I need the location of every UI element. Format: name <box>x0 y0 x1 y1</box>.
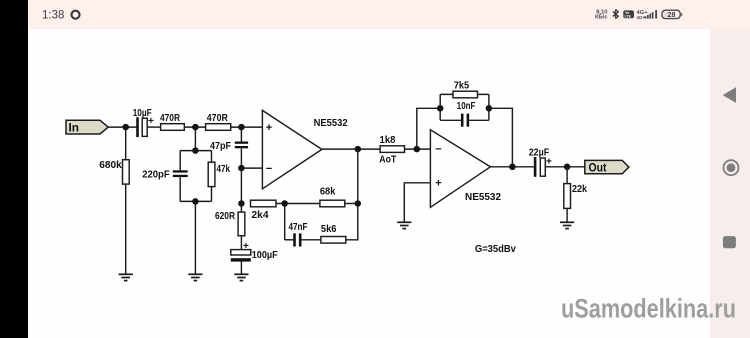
svg-text:−: − <box>435 144 441 156</box>
node C (RC shunt top) <box>192 147 199 154</box>
svg-text:7k5: 7k5 <box>454 79 470 91</box>
resistor 680k <box>99 159 129 184</box>
wire 68k right to node I <box>345 203 358 205</box>
wire 220pF bottom lead <box>179 177 181 201</box>
node M (feedback right) <box>486 105 493 112</box>
svg-text:AoT: AoT <box>379 153 396 165</box>
op-amp U2 NE5532 <box>430 130 501 208</box>
right nav strip background <box>710 0 750 338</box>
svg-text:4G+: 4G+ <box>637 15 646 20</box>
capacitor 22uF electrolytic <box>529 147 552 177</box>
node H (68k left) <box>281 200 288 207</box>
svg-text:NE5532: NE5532 <box>314 117 348 129</box>
wire feedback left risers <box>440 94 461 120</box>
wire 470R to 470R <box>184 126 205 128</box>
wire node K up to feedback <box>417 108 440 149</box>
wire 470R to op-amp + <box>231 126 263 128</box>
wire 47k bottom lead <box>211 187 213 202</box>
svg-text:28: 28 <box>668 10 676 19</box>
svg-text:LTE: LTE <box>625 15 632 19</box>
ground (U2 +) <box>397 222 411 228</box>
svg-text:1k8: 1k8 <box>380 134 396 146</box>
data rate 8,10 KB/s <box>595 9 608 20</box>
wire 100uF to ground <box>240 262 242 274</box>
svg-text:2k4: 2k4 <box>252 209 269 221</box>
node B (between 470R resistors) <box>192 124 199 131</box>
node E (+input / 47pF top) <box>238 124 245 131</box>
wire 47k top lead <box>211 151 213 163</box>
node D (RC shunt bottom) <box>192 198 199 205</box>
svg-text:680k: 680k <box>99 159 122 171</box>
svg-text:Out: Out <box>589 160 607 174</box>
wire In to 10uF <box>108 126 137 128</box>
connector In tag <box>66 120 108 134</box>
connector Out tag <box>585 160 629 174</box>
svg-text:220pF: 220pF <box>142 168 170 180</box>
ground (22k) <box>560 222 574 228</box>
resistor 470R (first) <box>160 112 184 131</box>
node G (620R / 2k4 junction) <box>238 200 245 207</box>
NAVBAR (right) <box>723 87 739 248</box>
node L (feedback left) <box>437 105 444 112</box>
resistor 620R <box>215 210 245 236</box>
signal bars <box>645 10 658 19</box>
svg-text:NE5532: NE5532 <box>465 191 501 203</box>
wire 220pF top lead <box>179 151 181 171</box>
svg-text:1:38: 1:38 <box>42 10 64 22</box>
VoLTE badge <box>623 10 634 18</box>
resistor 22k <box>564 183 587 208</box>
wire 620R to 100uF <box>240 236 242 250</box>
STATUSBAR <box>42 9 682 21</box>
capacitor 10nF <box>457 100 476 127</box>
wire 47pF to -input node <box>240 148 242 168</box>
wire to 47nF <box>285 239 294 241</box>
wire node F down to node G <box>240 168 242 212</box>
capacitor 220pF <box>142 168 188 180</box>
node I (68k right) <box>355 200 362 207</box>
wire node H down to 47nF <box>284 204 286 240</box>
wire 1k8 to U2 - <box>405 148 431 150</box>
svg-text:In: In <box>69 120 80 134</box>
node J (U1 output) <box>355 146 362 153</box>
resistor 1k8 <box>379 134 404 165</box>
svg-text:470R: 470R <box>160 112 180 124</box>
wire node F to op-amp - <box>241 167 262 169</box>
ground (100uF) <box>234 274 248 280</box>
wire node E down to 47pF <box>240 127 242 141</box>
wire node A down to 680k <box>125 127 127 160</box>
nav recents square <box>723 236 736 248</box>
svg-text:100µF: 100µF <box>252 249 279 261</box>
svg-text:47pF: 47pF <box>210 140 231 152</box>
svg-text:47k: 47k <box>217 163 231 175</box>
wire 22uF to Out <box>545 166 585 168</box>
svg-text:+: + <box>243 241 249 252</box>
capacitor 47pF <box>210 140 248 152</box>
svg-text:47nF: 47nF <box>289 221 308 233</box>
resistor 47k <box>208 162 230 186</box>
svg-text:КБ/с: КБ/с <box>595 15 608 21</box>
svg-text:+: + <box>148 116 154 127</box>
status bar background <box>0 0 750 29</box>
wire shunt bottom rail <box>180 200 211 202</box>
nav back triangle <box>723 87 736 103</box>
node K (U2 -input) <box>414 146 421 153</box>
data saver circle icon <box>72 11 80 19</box>
wire node J down to node I <box>357 149 359 203</box>
ground (680k) <box>119 274 133 280</box>
wire feedback to output <box>489 108 513 167</box>
node F (-input junction) <box>238 165 245 172</box>
capacitor 47nF <box>289 221 308 246</box>
svg-text:−: − <box>266 163 272 175</box>
wire node O down to 22k <box>566 167 568 184</box>
svg-text:22k: 22k <box>572 183 587 195</box>
svg-text:uSamodelkina.ru: uSamodelkina.ru <box>561 294 736 324</box>
left black notch bar <box>0 0 28 338</box>
resistor 2k4 <box>251 200 277 221</box>
resistor 7k5 <box>453 79 478 97</box>
node A (input junction) <box>122 124 129 131</box>
wire node B down <box>194 127 196 151</box>
wire 680k to ground <box>125 184 127 274</box>
svg-text:G=35dBv: G=35dBv <box>475 243 516 255</box>
resistor 470R (second) <box>206 112 231 131</box>
svg-text:10nF: 10nF <box>457 100 476 112</box>
bluetooth icon <box>613 10 619 19</box>
svg-text:+: + <box>435 178 441 190</box>
svg-text:+: + <box>266 122 272 134</box>
resistor 5k6 <box>321 223 346 243</box>
wire node D to ground <box>194 201 196 274</box>
wire shunt top rail <box>180 150 211 152</box>
svg-text:+: + <box>546 157 552 168</box>
wire 5k6 to vertical <box>346 204 358 240</box>
wire U2 + to ground <box>404 183 430 222</box>
nav home circle <box>724 160 739 175</box>
svg-text:620R: 620R <box>215 210 235 222</box>
capacitor 100uF electrolytic <box>231 241 278 262</box>
svg-text:470R: 470R <box>207 112 228 124</box>
wire 47nF to 5k6 <box>302 239 321 241</box>
battery 28 <box>662 10 682 19</box>
wire U2 output <box>490 166 534 168</box>
wire 2k4 to node H <box>276 203 320 205</box>
svg-text:68k: 68k <box>320 186 336 198</box>
op-amp U1 NE5532 <box>262 110 347 188</box>
node O (output junction) <box>564 164 571 171</box>
ground (RC shunt) <box>188 274 202 280</box>
wire feedback right risers <box>469 94 489 120</box>
wire 22k to ground <box>566 208 568 222</box>
svg-text:5k6: 5k6 <box>321 223 337 235</box>
node N (U2 output) <box>509 164 516 171</box>
resistor 68k <box>320 186 345 207</box>
wire U1 output <box>322 148 380 150</box>
capacitor C 10uF electrolytic <box>133 107 154 137</box>
wire 10uF to R 470R first <box>147 126 160 128</box>
